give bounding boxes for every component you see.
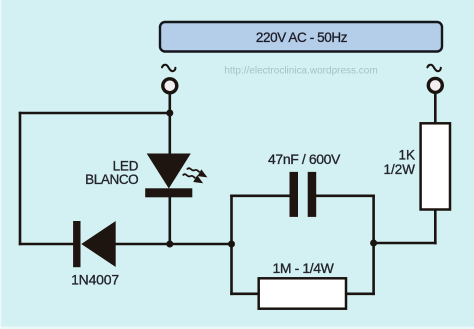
value label 1K 1/2W bbox=[383, 148, 415, 177]
terminal T1 (left, ~) bbox=[162, 65, 177, 93]
wire: node C riser down to 1M branch bbox=[230, 244, 233, 295]
wire: left rail vertical bbox=[19, 112, 22, 246]
node C (junction) bbox=[228, 241, 235, 248]
node B (junction) bbox=[166, 241, 173, 248]
wire: right riser up to resistor R1 bbox=[434, 209, 437, 245]
wire: diode anode to node B bbox=[115, 243, 171, 246]
wire: resistor R1 top to terminal T2 bbox=[434, 92, 437, 125]
diode D1 1N4007 bbox=[73, 221, 116, 267]
wire: riser up from 1M to node D bbox=[372, 243, 375, 295]
svg-text:1N4007: 1N4007 bbox=[71, 272, 119, 288]
svg-text:1K: 1K bbox=[398, 148, 415, 163]
node A (junction) bbox=[166, 110, 173, 117]
wire: node A down to LED anode bbox=[169, 113, 172, 155]
wire: node A left to rail bbox=[19, 112, 171, 115]
LED light emission arrows bbox=[183, 168, 210, 186]
svg-text:1M - 1/4W: 1M - 1/4W bbox=[273, 260, 335, 276]
AC source label box 220V AC - 50Hz bbox=[160, 22, 442, 52]
wire: capacitor branch left horizontal bbox=[230, 195, 290, 198]
node D (junction) bbox=[370, 240, 377, 247]
svg-text:BLANCO: BLANCO bbox=[85, 172, 138, 187]
svg-text:LED: LED bbox=[113, 158, 139, 173]
resistor R1 1K body bbox=[421, 123, 450, 209]
wire: node D to right riser bbox=[374, 242, 437, 245]
LED D2 (triangle + cathode bar) bbox=[145, 154, 192, 198]
wire: left rail to diode cathode bbox=[19, 243, 74, 246]
wire: capacitor branch right horizontal bbox=[315, 195, 375, 198]
wire: node C riser up to capacitor branch bbox=[230, 195, 233, 246]
label LED BLANCO bbox=[85, 158, 139, 187]
terminal T2 (right, ~) bbox=[427, 65, 442, 93]
resistor R2 1M body bbox=[259, 278, 346, 308]
wire: riser down to node D bbox=[372, 195, 375, 244]
wire: LED cathode to node B bbox=[169, 196, 172, 244]
wire: node B to node C bbox=[170, 243, 233, 246]
svg-text:47nF / 600V: 47nF / 600V bbox=[268, 151, 341, 167]
svg-text:http://electroclinica.wordpres: http://electroclinica.wordpress.com bbox=[224, 66, 377, 77]
wire: 1M branch left horizontal bbox=[230, 292, 260, 295]
capacitor C1 plates bbox=[290, 172, 317, 217]
svg-text:1/2W: 1/2W bbox=[383, 162, 415, 177]
wire: 1M branch right horizontal bbox=[345, 292, 375, 295]
svg-text:220V AC - 50Hz: 220V AC - 50Hz bbox=[256, 30, 348, 45]
wire: T1 stub to node A bbox=[169, 92, 172, 113]
